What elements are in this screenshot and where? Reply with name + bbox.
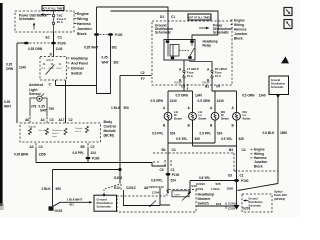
svg-text:0.5 ORN: 0.5 ORN <box>151 99 164 103</box>
svg-text:795: 795 <box>49 107 55 111</box>
svg-text:C201: C201 <box>228 206 236 210</box>
svg-text:On Full: On Full <box>38 130 46 132</box>
svg-text:362: 362 <box>112 46 118 50</box>
svg-text:C2: C2 <box>91 145 95 149</box>
svg-text:C1: C1 <box>171 15 175 19</box>
svg-text:C201C: C201C <box>126 186 137 190</box>
svg-text:GRY: GRY <box>40 109 48 113</box>
svg-text:P100: P100 <box>58 42 66 46</box>
svg-text:C204: C204 <box>152 190 160 194</box>
svg-text:524: 524 <box>171 179 177 183</box>
svg-text:Schematic: Schematic <box>155 30 171 34</box>
svg-text:A4: A4 <box>41 118 45 122</box>
svg-text:Harness: Harness <box>77 22 91 26</box>
svg-text:(SP203): (SP203) <box>274 197 285 201</box>
svg-text:Sense: Sense <box>75 131 82 133</box>
svg-text:F7: F7 <box>141 77 145 81</box>
svg-text:451: 451 <box>69 202 74 206</box>
svg-text:A: A <box>207 67 210 71</box>
svg-text:550: 550 <box>56 187 62 191</box>
svg-text:P100: P100 <box>92 157 100 161</box>
svg-text:Schematic: Schematic <box>271 86 284 89</box>
svg-text:324: 324 <box>91 151 97 155</box>
svg-text:HOT AT ALL TIMES: HOT AT ALL TIMES <box>42 7 65 10</box>
svg-text:Module: Module <box>104 129 116 133</box>
svg-text:C4: C4 <box>181 85 185 89</box>
svg-text:P100: P100 <box>241 179 249 183</box>
svg-text:C3: C3 <box>50 118 54 122</box>
svg-text:P100: P100 <box>172 173 180 177</box>
svg-text:Body: Body <box>104 120 113 124</box>
svg-text:1 BLK: 1 BLK <box>211 187 221 191</box>
svg-text:C1: C1 <box>58 36 63 40</box>
svg-text:1340: 1340 <box>170 99 177 103</box>
svg-text:1 BLK/WHT: 1 BLK/WHT <box>67 198 83 202</box>
svg-text:Junction: Junction <box>77 27 92 31</box>
svg-text:E1: E1 <box>46 36 50 40</box>
svg-text:C2: C2 <box>69 118 73 122</box>
svg-text:A3: A3 <box>30 145 34 149</box>
svg-text:Signal: Signal <box>29 124 37 128</box>
svg-text:Lower: Lower <box>174 193 180 196</box>
svg-text:S102: S102 <box>114 176 122 180</box>
svg-text:HOT AT ALL TIMES: HOT AT ALL TIMES <box>188 17 211 20</box>
svg-text:C: C <box>49 82 52 86</box>
svg-text:A: A <box>179 67 182 71</box>
svg-text:15 A: 15 A <box>215 74 222 78</box>
svg-text:Beam: Beam <box>199 116 207 120</box>
svg-text:Dimmer: Dimmer <box>198 197 212 201</box>
svg-text:B4: B4 <box>162 148 166 152</box>
svg-text:1356: 1356 <box>39 153 46 157</box>
svg-text:1850: 1850 <box>227 187 234 191</box>
svg-text:Light: Light <box>29 88 38 92</box>
svg-text:0.8 PPL: 0.8 PPL <box>73 151 85 155</box>
svg-text:0.35: 0.35 <box>102 56 108 60</box>
svg-text:Wiring: Wiring <box>234 23 244 27</box>
svg-text:Beam: Beam <box>221 116 229 120</box>
svg-text:B: B <box>163 124 166 128</box>
svg-text:C4: C4 <box>242 148 246 152</box>
svg-text:0.8 YEL: 0.8 YEL <box>199 176 211 180</box>
svg-text:E10: E10 <box>114 186 120 190</box>
svg-text:0.5 YEL: 0.5 YEL <box>176 137 188 141</box>
svg-text:B5: B5 <box>81 145 85 149</box>
svg-text:278: 278 <box>31 104 37 108</box>
svg-text:A: A <box>163 106 166 110</box>
svg-text:C201C: C201C <box>196 182 206 186</box>
svg-text:B: B <box>232 124 235 128</box>
svg-text:HDLP: HDLP <box>46 58 54 62</box>
svg-text:362: 362 <box>113 60 119 64</box>
svg-text:Junction: Junction <box>234 32 247 36</box>
svg-text:0.35 ORN: 0.35 ORN <box>28 47 43 51</box>
svg-text:0.5 ORN: 0.5 ORN <box>198 99 211 103</box>
svg-text:(BCM): (BCM) <box>104 134 114 138</box>
svg-text:Beam: Beam <box>243 116 251 120</box>
svg-text:2 BLK: 2 BLK <box>42 187 52 191</box>
svg-text:0.35: 0.35 <box>6 63 12 67</box>
svg-text:1340: 1340 <box>195 93 202 97</box>
svg-text:A: A <box>210 106 213 110</box>
svg-text:Beam: Beam <box>174 116 182 120</box>
svg-text:Headlamp: Headlamp <box>52 130 63 132</box>
svg-text:0.35 WHT: 0.35 WHT <box>84 46 98 50</box>
svg-text:WHT: WHT <box>102 60 109 64</box>
svg-text:0.5 PPL: 0.5 PPL <box>200 132 212 136</box>
svg-text:15 A: 15 A <box>187 74 194 78</box>
svg-text:C2: C2 <box>141 71 145 75</box>
svg-text:0.8 BLK: 0.8 BLK <box>263 131 276 135</box>
svg-text:WHT: WHT <box>4 104 11 108</box>
svg-text:500: 500 <box>124 106 130 110</box>
svg-text:C207A E11: C207A E11 <box>149 185 165 189</box>
svg-text:Sensor: Sensor <box>29 92 42 96</box>
svg-text:Schematic: Schematic <box>249 205 262 208</box>
svg-text:D1: D1 <box>160 15 164 19</box>
svg-text:HDLP: HDLP <box>57 68 63 70</box>
svg-text:0.5 YEL: 0.5 YEL <box>221 137 233 141</box>
svg-text:A: A <box>232 106 235 110</box>
svg-text:Relay: Relay <box>203 44 212 48</box>
svg-text:A17: A17 <box>59 118 65 122</box>
svg-text:0.35 BRN: 0.35 BRN <box>14 153 29 157</box>
svg-text:Switch: Switch <box>71 72 82 76</box>
svg-text:1140: 1140 <box>19 66 26 70</box>
svg-text:Control: Control <box>104 124 116 128</box>
svg-text:Headlamp: Headlamp <box>71 57 88 61</box>
svg-text:C201: C201 <box>196 187 204 191</box>
svg-text:C4: C4 <box>216 85 220 89</box>
svg-text:0.8 PPL: 0.8 PPL <box>151 179 163 183</box>
svg-text:And Panel: And Panel <box>71 62 88 66</box>
svg-text:A: A <box>188 106 191 110</box>
svg-text:B1: B1 <box>205 85 209 89</box>
svg-text:0.35: 0.35 <box>4 100 10 104</box>
svg-text:1850: 1850 <box>280 131 287 135</box>
svg-text:1140: 1140 <box>56 47 63 51</box>
svg-text:A6: A6 <box>25 118 29 122</box>
svg-text:C1: C1 <box>240 173 244 177</box>
svg-text:Harness: Harness <box>234 27 247 31</box>
svg-text:B: B <box>188 124 191 128</box>
svg-text:P100: P100 <box>115 33 123 37</box>
svg-text:0.5 ORN: 0.5 ORN <box>242 93 255 97</box>
svg-text:525: 525 <box>239 137 245 141</box>
svg-text:Twilight: Twilight <box>75 127 83 130</box>
svg-text:C1: C1 <box>171 168 175 172</box>
svg-text:Ambient: Ambient <box>29 83 44 87</box>
svg-text:Block: Block <box>234 36 243 40</box>
svg-text:Schematic: Schematic <box>97 205 112 209</box>
svg-text:C3: C3 <box>39 145 43 149</box>
svg-text:Block: Block <box>77 32 87 36</box>
svg-text:Dimmer: Dimmer <box>71 67 85 71</box>
svg-text:10 A: 10 A <box>57 20 64 24</box>
svg-text:Engine: Engine <box>234 18 245 22</box>
svg-text:B: B <box>210 124 213 128</box>
svg-text:D: D <box>50 53 53 57</box>
svg-text:0.5 ORN: 0.5 ORN <box>176 93 189 97</box>
svg-text:Switch: Switch <box>198 201 209 205</box>
svg-text:Input: Input <box>52 135 57 138</box>
svg-text:0.5 PPL: 0.5 PPL <box>152 132 164 136</box>
svg-text:Wiring: Wiring <box>77 17 88 21</box>
svg-text:OFF: OFF <box>41 68 46 70</box>
svg-text:525: 525 <box>195 137 201 141</box>
svg-text:1340: 1340 <box>217 99 224 103</box>
svg-text:ORN: ORN <box>6 67 14 71</box>
svg-text:Block: Block <box>254 164 263 168</box>
svg-text:B3: B3 <box>229 148 233 152</box>
svg-text:Switch: Switch <box>52 132 59 135</box>
svg-text:Schematic: Schematic <box>19 17 35 21</box>
svg-text:1340: 1340 <box>259 93 266 97</box>
svg-text:E13: E13 <box>216 202 222 206</box>
svg-text:525: 525 <box>216 182 221 186</box>
svg-text:C3: C3 <box>160 168 164 172</box>
svg-text:G102: G102 <box>55 209 63 213</box>
svg-text:1 BLK: 1 BLK <box>111 106 121 110</box>
svg-text:Schematic: Schematic <box>213 30 229 34</box>
svg-text:524: 524 <box>217 132 223 136</box>
svg-text:D3: D3 <box>228 173 232 177</box>
svg-text:C4: C4 <box>172 148 176 152</box>
svg-text:524: 524 <box>170 132 176 136</box>
svg-text:Headlamp: Headlamp <box>198 192 215 196</box>
svg-text:Engine: Engine <box>77 12 89 16</box>
